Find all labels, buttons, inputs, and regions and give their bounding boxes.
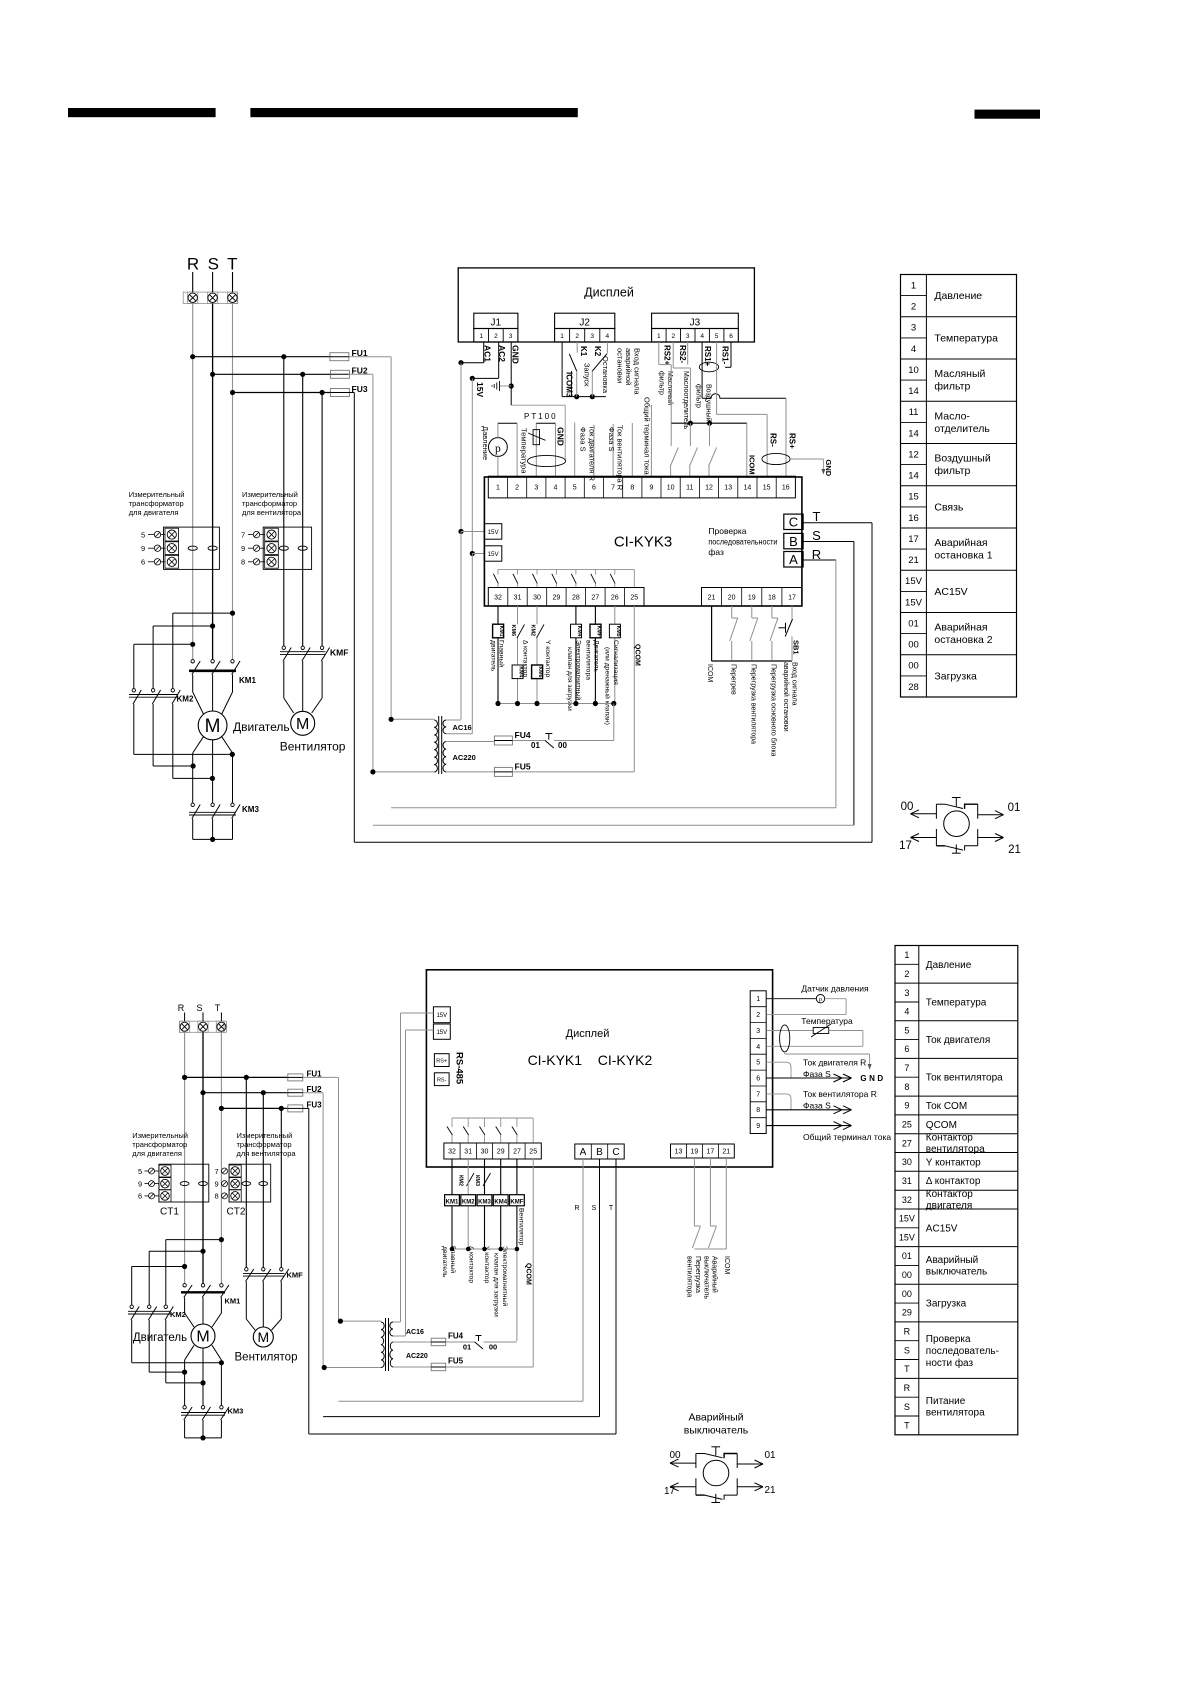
svg-text:фаз: фаз (708, 547, 724, 557)
label AC220 (upper) (453, 753, 476, 762)
svg-text:15V: 15V (905, 597, 923, 608)
svg-text:KM1: KM1 (498, 626, 504, 637)
relay output contacts (CI-KYK3) (493, 569, 634, 587)
wire KMF to fan left (lower) (246, 1282, 255, 1331)
terminal box 15V b (CI-KYK3) (484, 546, 501, 561)
svg-text:2: 2 (515, 485, 519, 492)
wire output 30 (KM6 coil) (536, 606, 538, 704)
wire KM1 to motor left (upper) (193, 675, 204, 715)
wire A to R phase (391, 560, 836, 808)
svg-text:6: 6 (756, 1076, 760, 1083)
wire output 31 (KM4 coil) (517, 606, 519, 704)
wire C to T phase (354, 523, 872, 843)
coil box KMF (upper) (590, 624, 602, 638)
contactor KM1 (upper) (189, 660, 256, 685)
redacted header bar 3 (975, 110, 1041, 119)
wire output 28 (loading valve) (575, 606, 577, 704)
phase labels R S T (lower) (178, 1003, 221, 1013)
svg-text:15V: 15V (905, 576, 923, 587)
3-phase input terminals (upper) (183, 292, 237, 303)
svg-text:01: 01 (764, 1450, 776, 1461)
label Давление (upper) (481, 426, 490, 460)
svg-text:трансформатор: трансформатор (132, 1140, 187, 1149)
terminal box A (784, 552, 803, 568)
pressure sensor (lower) (816, 995, 824, 1004)
label GND (upper right) (824, 460, 833, 477)
motor M Вентилятор (fan, upper) (280, 711, 346, 753)
svg-text:17: 17 (788, 594, 796, 601)
svg-text:Аварийная: Аварийная (934, 537, 987, 549)
switch oil filter (to terminal 10) (670, 423, 678, 476)
svg-text:Общий терминал тока: Общий терминал тока (803, 1132, 891, 1142)
label Вход сигнала аварийной остановки (SB1) (782, 662, 797, 732)
svg-text:00: 00 (902, 1270, 912, 1280)
svg-text:00: 00 (558, 741, 567, 750)
wire pin9 arrow (Общий терминал) (766, 1122, 851, 1130)
svg-text:R: R (574, 1205, 579, 1212)
svg-text:Контактор: Контактор (926, 1133, 973, 1144)
svg-text:CT1: CT1 (160, 1207, 179, 1218)
svg-text:00: 00 (902, 1289, 912, 1299)
label RS+ (upper) (788, 433, 797, 449)
svg-text:01: 01 (902, 1251, 912, 1261)
contactor KMF (upper) (280, 646, 348, 661)
svg-text:8: 8 (904, 1082, 909, 1092)
svg-text:25: 25 (902, 1120, 912, 1130)
svg-text:8: 8 (215, 1192, 219, 1201)
svg-text:Дисплей: Дисплей (566, 1028, 610, 1040)
wire R to FU1 (190, 354, 330, 359)
svg-text:14: 14 (908, 428, 919, 439)
svg-text:трансформатор: трансформатор (237, 1140, 292, 1149)
label CT1 (160, 1207, 179, 1218)
svg-text:CI-KYK1: CI-KYK1 (528, 1052, 583, 1068)
svg-text:Ток двигателя R: Ток двигателя R (588, 425, 597, 481)
svg-text:Проверка: Проверка (926, 1334, 971, 1345)
svg-text:T: T (227, 255, 237, 274)
svg-text:17: 17 (899, 840, 912, 852)
svg-text:B: B (789, 534, 798, 549)
wire output 30 (lower KM3) (484, 1159, 486, 1249)
label T (phase) (813, 509, 821, 524)
wire T to FU3 (lower) (219, 1106, 288, 1111)
wire RS1- to terminal 15 (717, 342, 768, 476)
svg-text:8: 8 (630, 485, 634, 492)
wire 15V secondary b (470, 378, 485, 733)
svg-text:3: 3 (756, 1028, 760, 1035)
svg-text:(или дренажный клапан): (или дренажный клапан) (604, 647, 612, 725)
pressure sensor p (upper) (489, 438, 508, 457)
svg-text:17: 17 (707, 1149, 715, 1156)
wire pin8 arrow (Ток вентилятора) (766, 1106, 851, 1114)
label Ток вентилятора R Фаза S (803, 1089, 877, 1111)
svg-text:FU4: FU4 (448, 1332, 464, 1341)
connector J2 (555, 313, 615, 342)
svg-text:KM5: KM5 (615, 626, 621, 637)
fuse FU3 (lower) (288, 1101, 322, 1112)
wire AC1 to 15V bus (458, 342, 483, 365)
wire KM2 return S-to-R (upper) (153, 704, 196, 769)
svg-text:Давление: Давление (481, 426, 490, 460)
contact KM2 small (lower) (458, 1173, 475, 1186)
svg-text:15V: 15V (899, 1214, 915, 1224)
svg-text:2: 2 (494, 333, 498, 340)
svg-text:2: 2 (671, 333, 675, 340)
svg-text:R: R (904, 1327, 911, 1337)
wire T lead (lower) (220, 1013, 222, 1022)
svg-text:Ток вентилятора R: Ток вентилятора R (803, 1089, 877, 1099)
svg-text:00: 00 (669, 1450, 681, 1461)
svg-text:Воздушный: Воздушный (705, 384, 713, 422)
svg-text:Давление: Давление (926, 960, 972, 971)
svg-text:14: 14 (744, 485, 752, 492)
contact Перегрузка основного блока (terminal 18) (770, 606, 778, 660)
wire QCOM 25 (lower) (532, 1159, 534, 1367)
svg-text:AC15V: AC15V (934, 586, 967, 598)
svg-text:M: M (205, 716, 221, 737)
label Электромагнитный клапан для загрузки (upper) (566, 640, 583, 711)
svg-text:13: 13 (675, 1149, 683, 1156)
contact K1 Запуск (569, 342, 577, 397)
svg-text:5: 5 (141, 530, 145, 539)
svg-text:KM3: KM3 (478, 1199, 491, 1205)
phase labels R S T (upper) (187, 255, 238, 274)
label Двигатель вентилятора (upper) (585, 640, 600, 680)
label measuring transformer for motor (upper) (129, 490, 185, 517)
svg-text:4: 4 (605, 333, 609, 340)
contactor KM1 (lower) (181, 1284, 240, 1306)
contactor KM3 (upper) (189, 803, 259, 818)
svg-text:Загрузка: Загрузка (934, 671, 977, 683)
svg-text:RS2+: RS2+ (663, 345, 672, 366)
wire output 31 (lower KM2) (467, 1159, 469, 1249)
svg-text:00: 00 (901, 801, 914, 813)
terminal box 15V a (lower) (433, 1007, 450, 1023)
svg-text:Фаза S: Фаза S (803, 1101, 831, 1111)
svg-text:01: 01 (463, 1343, 471, 1352)
contact KM6 small (on 31) (510, 625, 525, 639)
label Запуск (583, 363, 592, 387)
svg-text:15V: 15V (436, 1030, 447, 1036)
label Перегрузка вентилятора (upper) (750, 664, 757, 744)
wire pressure loop (pins 1-2, lower) (766, 999, 846, 1015)
svg-text:GND: GND (556, 427, 566, 446)
svg-text:Y контактор: Y контактор (544, 640, 551, 678)
svg-text:M: M (257, 1329, 269, 1345)
svg-text:Измерительный: Измерительный (242, 490, 298, 499)
svg-text:KMF: KMF (287, 1271, 304, 1280)
svg-text:Y контактор: Y контактор (483, 1246, 490, 1284)
label Ток двигателя R Фаза S (803, 1058, 866, 1080)
svg-text:Вентилятор: Вентилятор (235, 1352, 298, 1364)
wire S lead (upper) (212, 272, 214, 292)
label measuring transformer for fan (lower) (237, 1131, 297, 1158)
svg-text:9: 9 (904, 1101, 909, 1111)
label Ток вентилятора R / Фаза S (607, 425, 625, 491)
svg-text:25: 25 (529, 1149, 537, 1156)
svg-text:для двигателя: для двигателя (129, 508, 179, 517)
wire fan T branch (upper) (321, 393, 323, 647)
svg-text:Аварийный: Аварийный (711, 1256, 719, 1293)
KM coil common bus (lower) (450, 1247, 520, 1252)
svg-text:00: 00 (489, 1343, 497, 1352)
svg-text:32: 32 (902, 1195, 912, 1205)
wire RS- to terminal 15 label (769, 433, 778, 447)
contact Аварийный выключатель (lower 17) (708, 1158, 716, 1248)
svg-text:FU5: FU5 (448, 1357, 464, 1366)
fuse FU1 (lower) (288, 1070, 322, 1081)
svg-text:19: 19 (691, 1149, 699, 1156)
wire FU3 output (349, 393, 355, 843)
wire FU5 to QCOM (lower) (446, 1366, 534, 1368)
label CT2 (227, 1207, 246, 1218)
svg-text:отделитель: отделитель (934, 423, 990, 435)
wire motor bottom mid (lower) (202, 1348, 204, 1406)
svg-text:CI-KYK2: CI-KYK2 (598, 1052, 653, 1068)
svg-text:Y контактор: Y контактор (926, 1157, 981, 1168)
svg-text:RS1-: RS1- (721, 346, 730, 365)
switch oil separator (to terminal 11) (689, 423, 697, 476)
contactor KMF (lower) (243, 1268, 303, 1282)
svg-text:6: 6 (138, 1192, 142, 1201)
svg-text:CT2: CT2 (227, 1207, 246, 1218)
svg-text:7: 7 (241, 530, 245, 539)
label Y контактор (lower) (483, 1246, 490, 1284)
svg-text:для вентилятора: для вентилятора (242, 508, 302, 517)
svg-text:KM3: KM3 (242, 805, 259, 814)
svg-text:M: M (196, 1329, 209, 1346)
wire KM2 tap S (lower) (149, 1249, 205, 1306)
label Перегрузка вентилятора (lower) (686, 1256, 702, 1297)
svg-text:Запуск: Запуск (583, 363, 592, 387)
svg-text:KM1: KM1 (225, 1297, 241, 1306)
svg-text:00: 00 (908, 661, 919, 672)
svg-text:Δ контактор: Δ контактор (468, 1246, 475, 1283)
svg-text:Электромагнитный: Электромагнитный (575, 640, 583, 700)
label ICOM (upper) (748, 455, 757, 475)
svg-text:Измерительный: Измерительный (129, 490, 185, 499)
wire KM2 tap T (lower) (166, 1237, 224, 1306)
label RS2+ (663, 345, 672, 366)
wire ICOM to terminal 14 (746, 423, 748, 476)
wire output 32 (KM1 coil) (497, 606, 499, 704)
svg-text:27: 27 (513, 1149, 521, 1156)
svg-text:9: 9 (215, 1179, 219, 1188)
wire pin7 jog (766, 1094, 791, 1110)
svg-text:29: 29 (497, 1149, 505, 1156)
coil box KM4 valve (upper) (571, 624, 583, 638)
svg-text:19: 19 (748, 594, 756, 601)
svg-text:выключатель: выключатель (684, 1425, 749, 1437)
terminal strip 32-25 (lower) (444, 1143, 541, 1159)
shield ellipse (RS to display) (762, 453, 790, 464)
control transformer T1 (upper) (370, 716, 494, 775)
svg-text:5: 5 (573, 485, 577, 492)
wire pin5 jog (766, 1062, 791, 1078)
svg-text:C: C (789, 515, 798, 530)
wire motor bottom right (lower) (212, 1345, 221, 1406)
svg-text:4: 4 (911, 344, 916, 355)
svg-text:27: 27 (902, 1138, 912, 1148)
wire KMF to fan right (upper) (312, 661, 322, 713)
label Температура (520, 428, 529, 474)
svg-text:14: 14 (908, 386, 919, 397)
svg-text:RS1+: RS1+ (703, 346, 712, 367)
svg-text:AC16: AC16 (406, 1329, 424, 1336)
svg-text:14: 14 (908, 471, 919, 482)
terminal box 15V a (CI-KYK3) (484, 524, 501, 540)
svg-text:Масло-: Масло- (934, 410, 970, 422)
controller box CI-KYK1 CI-KYK2 (426, 970, 772, 1167)
svg-text:Δ контактор: Δ контактор (522, 640, 529, 677)
terminal strip A B C (lower) (575, 1144, 624, 1159)
label RS1- (721, 346, 730, 365)
svg-text:вентилятора: вентилятора (926, 1144, 985, 1155)
svg-text:KM1: KM1 (446, 1199, 459, 1205)
wire shield to GND arrow (upper) (790, 459, 825, 475)
svg-text:Остановка: Остановка (601, 356, 610, 394)
svg-text:Общий терминал тока: Общий терминал тока (643, 397, 652, 476)
svg-text:4: 4 (904, 1007, 909, 1017)
svg-text:8: 8 (241, 558, 245, 567)
svg-text:KM2: KM2 (530, 625, 536, 637)
ground symbol (J1 GND) (492, 381, 500, 391)
svg-text:B: B (596, 1147, 603, 1158)
svg-text:18: 18 (768, 594, 776, 601)
wire KM2 return R-to-T (lower) (132, 1320, 224, 1365)
wire QCOM 25 (upper) (633, 606, 635, 772)
switch 01/00 (upper) (512, 734, 613, 751)
terminal box RS+ (434, 1054, 449, 1067)
svg-text:для двигателя: для двигателя (132, 1149, 182, 1158)
terminal description table (upper) (901, 275, 1017, 698)
label R (phase) (812, 547, 821, 562)
svg-text:фильтр: фильтр (658, 371, 665, 395)
svg-text:FU3: FU3 (307, 1101, 323, 1110)
svg-text:T: T (215, 1003, 221, 1013)
KM coil common bus (upper) (495, 701, 616, 741)
display box Дисплей (upper) (458, 268, 754, 342)
svg-text:ICOM: ICOM (748, 455, 757, 475)
svg-text:последовательности: последовательности (708, 537, 777, 547)
svg-text:двигателя: двигателя (926, 1201, 972, 1212)
svg-text:QCOM: QCOM (525, 1263, 532, 1285)
svg-text:Ток двигателя: Ток двигателя (926, 1035, 991, 1046)
svg-text:9: 9 (138, 1179, 142, 1188)
label QCOM (lower) (525, 1263, 532, 1285)
redacted header bar 1 (68, 108, 216, 117)
wire ICOM terminal 21 (upper) (712, 606, 792, 661)
label K1 (579, 346, 588, 357)
svg-text:остановка 2: остановка 2 (934, 634, 992, 646)
wire B to S phase (373, 542, 854, 826)
svg-text:9: 9 (649, 485, 653, 492)
svg-text:Двигатель: Двигатель (233, 720, 290, 734)
label Общий терминал тока (643, 397, 652, 476)
label Температура (lower) (801, 1016, 853, 1026)
svg-text:30: 30 (902, 1157, 912, 1167)
label RS1+ (703, 346, 712, 367)
svg-text:1: 1 (904, 950, 909, 960)
wire output 26 (signal) (614, 606, 616, 704)
svg-text:A: A (580, 1147, 587, 1158)
svg-text:8: 8 (756, 1107, 760, 1114)
svg-text:S: S (812, 528, 821, 543)
wire FU2 output (349, 374, 373, 772)
contact KM2 small (on 30) (530, 625, 545, 639)
svg-text:остановка 1: остановка 1 (934, 550, 992, 562)
label ICOM (lower) (723, 1256, 730, 1274)
wire motor bottom right (upper) (222, 736, 233, 803)
svg-text:4: 4 (554, 485, 558, 492)
motor M Двигатель (upper) (198, 711, 289, 740)
wire terminal 5 stub (574, 422, 576, 476)
wire A to R (lower) (339, 1159, 584, 1401)
svg-text:CI-KYK3: CI-KYK3 (614, 534, 672, 551)
wire KM1 to motor right (lower) (212, 1298, 221, 1328)
shielded pair ellipse (RS1) (699, 362, 718, 372)
wire KM2 tap T (upper) (173, 611, 235, 690)
svg-text:15: 15 (763, 485, 771, 492)
svg-text:AC16: AC16 (453, 723, 472, 732)
svg-text:двигатель: двигатель (441, 1246, 448, 1278)
wire KMF to fan right (lower) (272, 1282, 282, 1331)
svg-text:16: 16 (782, 485, 790, 492)
shield ellipse (lower sensor) (780, 1025, 790, 1052)
svg-text:GND: GND (511, 345, 521, 364)
coil box KM1 (upper) (493, 624, 505, 638)
wire phase S vertical (lower) (202, 1032, 204, 1283)
svg-text:Вентилятор: Вентилятор (518, 1208, 525, 1245)
emergency stop switch symbol (lower) (664, 1412, 776, 1503)
emergency stop switch symbol (upper) (899, 798, 1021, 857)
svg-text:PT100: PT100 (524, 412, 558, 421)
terminal strip 21-17 (CI-KYK3 bottom right) (702, 588, 803, 607)
label GND (J1) (511, 345, 521, 364)
svg-text:25: 25 (630, 594, 638, 601)
controller box CI-KYK3 (484, 477, 802, 606)
contactor KM2 (lower) (128, 1305, 186, 1320)
pushbutton SB1 (terminal 17) (779, 606, 801, 661)
coil box KM4 (upper) (512, 665, 524, 679)
wire output 27 (KMF coil) (594, 606, 596, 704)
svg-text:6: 6 (729, 333, 733, 340)
svg-text:AC220: AC220 (406, 1353, 428, 1360)
label AC2 (497, 345, 507, 362)
wire AC2 to 15V bus (470, 342, 499, 381)
svg-text:Фаза S: Фаза S (607, 427, 616, 452)
svg-text:Проверка: Проверка (708, 526, 746, 536)
svg-text:4: 4 (756, 1044, 760, 1051)
svg-text:T: T (609, 1205, 614, 1212)
3-phase input terminals (lower) (179, 1021, 226, 1032)
svg-text:Аварийный: Аварийный (688, 1412, 743, 1424)
label ICOM (below 21, upper) (706, 664, 713, 682)
svg-text:последователь-: последователь- (926, 1346, 999, 1357)
svg-text:Дисплей: Дисплей (584, 286, 634, 300)
terminal strip 1-16 (CI-KYK3 top) (488, 476, 795, 498)
svg-text:Температура: Температура (801, 1016, 853, 1026)
svg-text:Аварийный: Аварийный (926, 1255, 978, 1266)
svg-text:p: p (819, 997, 822, 1003)
label Проверка последовательности фаз (upper) (708, 526, 777, 557)
svg-text:RS-: RS- (769, 433, 778, 447)
wire KM2 tap S (upper) (153, 623, 215, 689)
wire KM2 return T-to-S (upper) (173, 704, 215, 781)
svg-text:RS+: RS+ (436, 1059, 447, 1065)
wire KM3 to star point (lower) (185, 1420, 222, 1441)
svg-text:2: 2 (756, 1012, 760, 1019)
